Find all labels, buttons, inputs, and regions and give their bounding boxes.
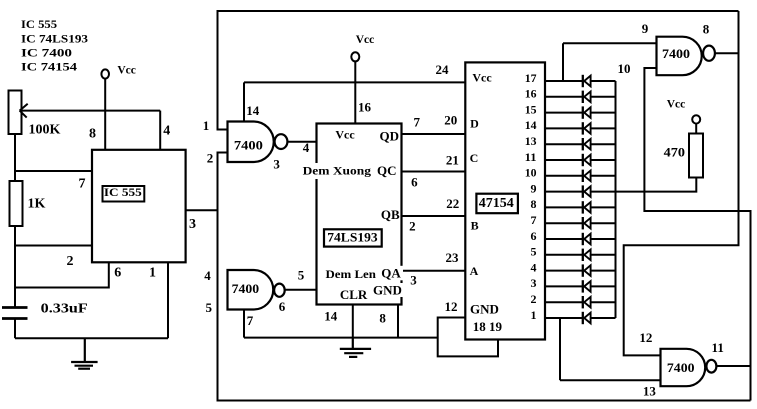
wire 74154 pin 6 to LED D11 xyxy=(545,238,616,240)
svg-text:GND: GND xyxy=(373,283,402,298)
wire gate3 pin 9 input xyxy=(563,42,657,44)
svg-text:7400: 7400 xyxy=(234,138,263,153)
label background QA xyxy=(382,266,404,281)
parts list text xyxy=(21,17,88,74)
wire 555 bottom rail xyxy=(15,337,168,339)
svg-text:A: A xyxy=(470,264,479,278)
svg-text:2: 2 xyxy=(531,292,537,306)
LED D11 xyxy=(583,233,591,245)
nand gate U2D 7400 xyxy=(661,349,717,386)
pin labels 193 left 4 5 xyxy=(298,140,310,283)
svg-text:6: 6 xyxy=(279,299,286,314)
svg-text:5: 5 xyxy=(298,268,305,283)
svg-text:24: 24 xyxy=(436,62,450,77)
svg-text:0.33uF: 0.33uF xyxy=(41,302,88,317)
wire 74154 pin 17 to LED D1 xyxy=(545,80,616,82)
wire gate3 output pin 8 xyxy=(715,52,739,54)
IC 555 inner label box xyxy=(103,186,145,202)
svg-text:3: 3 xyxy=(531,276,537,290)
svg-text:12: 12 xyxy=(445,299,458,314)
value label 1K xyxy=(28,197,46,212)
Vcc label (555) xyxy=(117,64,136,76)
wire 74154 pin 11 to LED D6 xyxy=(545,159,616,161)
wire QB to B pin 2 to 22 xyxy=(402,215,466,217)
wire 74154 pin 10 to LED D7 xyxy=(545,175,616,177)
svg-text:100K: 100K xyxy=(29,123,61,138)
svg-text:Dem Xuong: Dem Xuong xyxy=(303,164,371,178)
LED D9 xyxy=(583,201,591,213)
svg-text:12: 12 xyxy=(639,330,652,345)
LED D3 xyxy=(583,106,591,118)
svg-text:11: 11 xyxy=(712,340,724,355)
47154 inner label box xyxy=(476,194,518,214)
74LS193 inner label box xyxy=(324,229,382,246)
74154 right pin numbers xyxy=(525,71,537,322)
svg-text:7: 7 xyxy=(413,115,420,130)
svg-text:2: 2 xyxy=(207,151,214,166)
LED D1 xyxy=(583,75,591,87)
svg-text:21: 21 xyxy=(446,152,459,167)
value label 470 xyxy=(664,144,685,159)
wire gate2 output to 193 pin 5 xyxy=(285,289,317,291)
wire Vcc stem to 470 xyxy=(695,124,697,134)
wire 74154 pin 14 to LED D4 xyxy=(545,127,616,129)
wire pin 4 vertical into 555 xyxy=(159,111,161,150)
wire 74154 pin 13 to LED D5 xyxy=(545,143,616,145)
resistor 1K body xyxy=(10,181,23,226)
wire 74154 pin 3 to LED D14 xyxy=(545,285,616,287)
counter U3 74LS193 box xyxy=(317,124,402,305)
wire pin 7 xyxy=(15,170,92,172)
svg-text:4: 4 xyxy=(204,268,211,283)
svg-text:74LS193: 74LS193 xyxy=(327,230,378,245)
wire gate4 output up to gate3 pin10 route xyxy=(644,68,750,401)
svg-text:Dem Len: Dem Len xyxy=(326,267,377,281)
wire QA to A pin 3 to 23 xyxy=(402,270,466,272)
svg-text:7: 7 xyxy=(247,313,254,328)
LED D6 xyxy=(583,154,591,166)
svg-text:6: 6 xyxy=(114,266,121,281)
74154 inside labels xyxy=(470,71,514,335)
74LS193 inside labels xyxy=(303,128,402,303)
gate4 label 7400 xyxy=(667,360,695,375)
capacitor 0.33uF plates xyxy=(2,308,28,319)
nand gate U2A 7400 xyxy=(228,122,288,163)
gate3 pin labels 9 8 10 xyxy=(618,21,710,76)
wire pot wiper horizontal to pin 4 xyxy=(20,110,161,112)
svg-text:3: 3 xyxy=(189,217,196,232)
wire 74154 pin 15 to LED D3 xyxy=(545,112,616,114)
svg-text:8: 8 xyxy=(89,127,96,142)
svg-text:14: 14 xyxy=(246,103,260,118)
svg-text:47154: 47154 xyxy=(479,196,514,211)
svg-text:14: 14 xyxy=(324,309,338,324)
svg-text:11: 11 xyxy=(525,150,537,164)
IC 555 name label xyxy=(104,187,142,199)
wire left rail to gate inputs and bottom border xyxy=(218,153,751,401)
svg-text:QB: QB xyxy=(381,207,400,222)
wire pin 6 xyxy=(15,262,109,287)
wire top border feedback xyxy=(218,11,739,130)
svg-text:4: 4 xyxy=(531,260,537,274)
nand gate U2C 7400 xyxy=(657,37,715,75)
wire row pin9 extension to 470 resistor xyxy=(616,178,697,192)
wire 74154 pin 5 to LED D12 xyxy=(545,254,616,256)
gate4 pin labels 12 13 11 xyxy=(639,330,723,399)
wire gate3 output down to gate4 pin12 route xyxy=(624,11,739,355)
value label 100K xyxy=(29,123,61,138)
wire 555 pin 3 output xyxy=(186,209,218,211)
svg-text:QD: QD xyxy=(380,129,400,144)
193 bottom pin labels 14 8 xyxy=(324,309,386,326)
svg-text:6: 6 xyxy=(411,175,418,190)
Vcc terminal circle (555) xyxy=(101,69,109,78)
svg-text:7: 7 xyxy=(531,213,537,227)
potentiometer wiper arrow xyxy=(20,104,28,118)
svg-text:4: 4 xyxy=(303,140,310,155)
svg-text:14: 14 xyxy=(525,118,537,132)
Vcc label (470) xyxy=(667,99,686,111)
svg-text:IC 7400: IC 7400 xyxy=(21,46,72,60)
svg-text:10: 10 xyxy=(618,61,631,76)
svg-text:5: 5 xyxy=(205,300,212,315)
LED D2 xyxy=(583,91,591,103)
wire QD to D pin 7 to 20 xyxy=(402,133,466,135)
wire Vcc rail to 74154 pin 24 xyxy=(244,81,465,83)
svg-text:5: 5 xyxy=(531,245,537,259)
LED D10 xyxy=(583,217,591,229)
svg-text:B: B xyxy=(471,219,479,233)
decoder U4 74154 box xyxy=(465,62,545,339)
wire QC to C pin 6 to 21 xyxy=(402,171,466,173)
wire pot bottom to 1K top xyxy=(14,134,16,181)
pin label 24 xyxy=(436,62,450,77)
svg-text:1: 1 xyxy=(149,266,156,281)
wire 154 pin12 GND loop to pins 18 19 xyxy=(438,318,498,357)
svg-text:4: 4 xyxy=(163,124,170,139)
wire 74154 pin 9 to LED D8 xyxy=(545,191,616,193)
label background Dem Xuong xyxy=(302,163,373,179)
wire pin 2 xyxy=(15,245,92,247)
svg-text:7400: 7400 xyxy=(232,281,260,296)
LED D14 xyxy=(583,280,591,292)
wire gate4 pin 13 input xyxy=(560,379,661,381)
svg-text:Vcc: Vcc xyxy=(667,99,686,111)
555 pin labels xyxy=(67,124,197,281)
svg-text:16: 16 xyxy=(358,100,372,115)
svg-text:QC: QC xyxy=(377,163,397,178)
svg-text:CLR: CLR xyxy=(340,287,368,302)
resistor 470 body xyxy=(689,134,703,178)
LED D16 xyxy=(583,312,591,324)
wire pin 1 down xyxy=(167,262,169,338)
wire 193 pin8 GND down xyxy=(397,305,399,338)
wire Vcc stem to pin 8 xyxy=(104,79,106,150)
svg-text:QA: QA xyxy=(381,266,401,281)
wire gate1 output to 193 pin 4 xyxy=(287,141,316,143)
svg-text:23: 23 xyxy=(446,250,460,265)
pin label 16 xyxy=(358,100,372,115)
wire 193 pin14 CLR down xyxy=(352,305,354,338)
gate2 pin labels 4 5 6 7 xyxy=(204,268,286,328)
svg-text:IC 74154: IC 74154 xyxy=(21,60,77,74)
LED D5 xyxy=(583,138,591,150)
svg-text:7400: 7400 xyxy=(662,46,690,61)
Vcc terminal circle (74LS193) xyxy=(351,52,359,61)
wire gate2 pin7 to ground rail xyxy=(243,310,245,338)
wire 74154 pin 1 to LED D16 xyxy=(545,317,616,319)
LED D15 xyxy=(583,296,591,308)
svg-text:9: 9 xyxy=(642,21,649,36)
wire Vcc stem to 193 pin16 xyxy=(354,62,356,124)
interconnect pin labels 7 20 21 6 22 2 23 3 12 xyxy=(409,113,459,314)
svg-text:16: 16 xyxy=(525,87,537,101)
svg-text:8: 8 xyxy=(703,22,710,37)
LED D8 xyxy=(583,185,591,197)
wire gate4 output pin 11 xyxy=(716,365,750,367)
svg-text:7: 7 xyxy=(79,177,86,192)
wire ground rail xyxy=(244,337,438,339)
wire tap row17 to gate3 pin 9 xyxy=(562,43,564,81)
gate3 label 7400 xyxy=(662,46,690,61)
svg-text:1: 1 xyxy=(203,118,210,133)
svg-text:15: 15 xyxy=(525,102,537,116)
svg-text:3: 3 xyxy=(410,273,417,288)
nand gate U2B 7400 xyxy=(228,270,285,310)
Vcc label (74LS193) xyxy=(356,34,375,46)
svg-text:8: 8 xyxy=(531,197,537,211)
svg-text:Vcc: Vcc xyxy=(356,34,375,46)
svg-text:10: 10 xyxy=(525,166,537,180)
ground symbol (74LS193) xyxy=(340,338,371,357)
svg-text:17: 17 xyxy=(525,71,537,85)
svg-text:IC 555: IC 555 xyxy=(21,17,57,31)
gate1 pin labels 1 2 14 3 xyxy=(203,103,281,171)
svg-text:6: 6 xyxy=(531,229,537,243)
svg-text:Vcc: Vcc xyxy=(335,128,355,142)
svg-text:Vcc: Vcc xyxy=(117,64,136,76)
value label 0.33uF xyxy=(41,302,88,317)
svg-text:IC 555: IC 555 xyxy=(104,187,142,199)
IC 555 box U1 xyxy=(92,150,186,262)
svg-text:IC 74LS193: IC 74LS193 xyxy=(21,32,88,46)
svg-text:D: D xyxy=(470,117,479,131)
wire 1K bottom to capacitor xyxy=(14,226,16,307)
ground symbol (555) xyxy=(71,338,98,369)
wire 74154 pin 2 to LED D15 xyxy=(545,301,616,303)
wire gate1 pin14 Vcc xyxy=(243,82,245,121)
label background GND (74LS193) xyxy=(374,283,404,297)
LED D7 xyxy=(583,170,591,182)
svg-text:9: 9 xyxy=(531,181,537,195)
svg-text:20: 20 xyxy=(444,113,457,128)
svg-text:8: 8 xyxy=(379,310,386,325)
svg-text:22: 22 xyxy=(446,196,459,211)
svg-text:13: 13 xyxy=(525,134,537,148)
wire tap row1 to gate4 pin 13 xyxy=(559,318,561,380)
LED D12 xyxy=(583,249,591,261)
svg-text:2: 2 xyxy=(409,219,416,234)
wire 74154 pin 16 to LED D2 xyxy=(545,96,616,98)
svg-text:1K: 1K xyxy=(28,197,46,212)
wire capacitor to bottom rail xyxy=(14,319,16,339)
svg-text:2: 2 xyxy=(67,254,74,269)
wire LED common bus xyxy=(615,81,617,318)
wire 74154 pin 4 to LED D13 xyxy=(545,270,616,272)
svg-text:18 19: 18 19 xyxy=(473,319,503,334)
svg-text:3: 3 xyxy=(273,157,280,172)
svg-text:C: C xyxy=(470,151,479,165)
LED D13 xyxy=(583,264,591,276)
gate1 label 7400 xyxy=(234,138,263,153)
svg-text:470: 470 xyxy=(664,144,685,159)
svg-text:Vcc: Vcc xyxy=(472,71,492,85)
svg-text:GND: GND xyxy=(470,302,499,317)
gate2 label 7400 xyxy=(232,281,260,296)
Vcc terminal circle (470) xyxy=(692,115,700,123)
svg-text:7400: 7400 xyxy=(667,360,695,375)
LED D4 xyxy=(583,122,591,134)
wire 74154 pin 8 to LED D9 xyxy=(545,206,616,208)
svg-text:13: 13 xyxy=(643,384,657,399)
potentiometer 100K body xyxy=(9,91,22,135)
svg-text:1: 1 xyxy=(531,308,537,322)
wire 74154 pin 7 to LED D10 xyxy=(545,222,616,224)
